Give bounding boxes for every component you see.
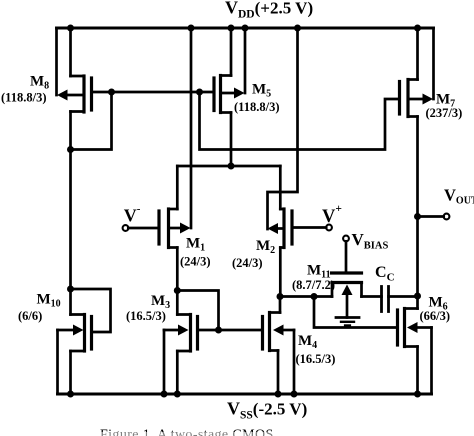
svg-text:VSS(-2.5 V): VSS(-2.5 V) bbox=[227, 399, 307, 422]
node M5 source on VDD bbox=[228, 25, 235, 32]
wire M2 drain down bbox=[279, 248, 282, 297]
wire M4 drain up bbox=[279, 297, 282, 313]
svg-text:(66/3): (66/3) bbox=[420, 309, 451, 323]
transistor M8 bbox=[57, 76, 92, 112]
svg-text:(8.7/7.2): (8.7/7.2) bbox=[292, 278, 335, 292]
wire M5 source to VDD bbox=[230, 28, 233, 76]
transistor M5 bbox=[214, 76, 245, 113]
terminal V- circle bbox=[123, 225, 129, 231]
wire M3 source to VSS bbox=[176, 351, 179, 394]
svg-text:M2: M2 bbox=[256, 238, 275, 256]
wire M8/M5 gate bias line bbox=[92, 91, 215, 94]
node M5 gate junction bbox=[196, 89, 203, 96]
wire VDD to M1 bulk bbox=[190, 28, 193, 228]
wire M3 drain bbox=[176, 291, 179, 315]
terminal V+ circle bbox=[326, 225, 332, 231]
transistor M1 bbox=[159, 209, 191, 248]
wire M10 diode connection bbox=[71, 289, 111, 332]
node M5 bulk on VDD bbox=[242, 25, 249, 32]
svg-text:M10: M10 bbox=[37, 292, 61, 310]
svg-text:VBIAS: VBIAS bbox=[352, 230, 389, 252]
transistor M3 bbox=[164, 315, 198, 352]
transistor M10 bbox=[58, 315, 92, 352]
node M3/M4 gate junction bbox=[215, 327, 222, 334]
wire M4 source to VSS bbox=[277, 351, 280, 395]
transistor M7 bbox=[400, 80, 434, 117]
ground symbol bbox=[336, 318, 359, 326]
svg-text:(237/3): (237/3) bbox=[426, 106, 463, 120]
node M10 source on VSS bbox=[67, 391, 74, 398]
wire first stage output line bbox=[280, 295, 332, 298]
wire VDD to M8 source bbox=[69, 28, 72, 76]
wire VDD right end to M7 bulk bbox=[432, 28, 435, 99]
wire VDD to M2 bulk bbox=[268, 28, 298, 229]
wire M8 drain down bbox=[69, 112, 72, 150]
wire M5 bulk to VDD bbox=[244, 28, 247, 93]
VSS power rail bbox=[58, 393, 432, 396]
node first stage output bbox=[277, 293, 284, 300]
node M3 drain bbox=[174, 287, 181, 294]
node M1 bulk on VDD bbox=[188, 25, 195, 32]
node VOUT tap bbox=[414, 213, 421, 220]
transistor M6 bbox=[398, 309, 432, 347]
node M4 source on VSS bbox=[275, 391, 282, 398]
transistor M2 bbox=[268, 209, 293, 248]
wire M2 source up to tail bbox=[279, 166, 282, 209]
VDD power rail bbox=[57, 27, 434, 30]
terminal VOUT circle bbox=[444, 214, 450, 220]
wire tail line bbox=[177, 165, 280, 168]
wire V- input lead bbox=[128, 227, 159, 230]
wire VOUT lead bbox=[418, 215, 444, 218]
node M8 drain bbox=[67, 146, 74, 153]
wire M3/M4 gate line bbox=[198, 329, 263, 332]
wire M3 diode connection bbox=[177, 291, 218, 331]
wire M4 bulk to VSS bbox=[293, 330, 296, 394]
transistor M11 MOS capacitor bbox=[332, 273, 362, 318]
node M6 gate tap bbox=[311, 293, 318, 300]
node Cc on output column bbox=[414, 293, 421, 300]
caption fade bbox=[90, 432, 310, 436]
svg-text:(118.8/3): (118.8/3) bbox=[234, 100, 279, 114]
svg-text:V-: V- bbox=[124, 203, 141, 226]
svg-text:V+: V+ bbox=[322, 203, 342, 227]
wire VBIAS lead bbox=[345, 241, 348, 273]
svg-text:M5: M5 bbox=[252, 82, 271, 100]
node M10 drain bbox=[67, 286, 74, 293]
wire output column M7 drain to M6 drain bbox=[416, 117, 419, 309]
node M7 source on VDD bbox=[414, 25, 421, 32]
node M2 bulk on VDD bbox=[294, 25, 301, 32]
svg-text:M1: M1 bbox=[186, 236, 205, 254]
node VDD/M8 source bbox=[67, 25, 74, 32]
svg-text:VOUT: VOUT bbox=[444, 186, 474, 207]
wire bias column M8 to M10 bbox=[69, 150, 72, 290]
svg-text:(24/3): (24/3) bbox=[232, 256, 263, 270]
node M8 gate junction bbox=[108, 89, 115, 96]
node tail junction bbox=[228, 163, 235, 170]
wire M1 source up to tail bbox=[176, 166, 179, 209]
terminal VBIAS circle bbox=[343, 236, 349, 242]
svg-text:VDD(+2.5 V): VDD(+2.5 V) bbox=[225, 0, 313, 21]
wire M8 diode connection bbox=[71, 92, 112, 150]
wire M5 drain to tail bbox=[230, 113, 233, 167]
node M6 source on VSS bbox=[414, 391, 421, 398]
wire M6 gate line bbox=[314, 297, 398, 328]
node M4 bulk on VSS bbox=[291, 391, 298, 398]
wire bias to M7 gate bbox=[200, 92, 400, 150]
node M3 bulk on VSS bbox=[161, 391, 168, 398]
wire Cc to output bbox=[389, 295, 418, 298]
wire M6 source to VSS bbox=[416, 347, 419, 395]
wire M10 bulk to VSS bbox=[56, 330, 59, 394]
wire M10 source to VSS bbox=[69, 351, 72, 394]
svg-text:(16.5/3): (16.5/3) bbox=[296, 352, 336, 366]
svg-text:(6/6): (6/6) bbox=[18, 309, 42, 323]
wire VDD left end to M8 bulk bbox=[55, 28, 58, 95]
wire M10 drain bbox=[69, 289, 72, 315]
capacitor Cc bbox=[382, 287, 389, 312]
wire M7 source to VDD bbox=[416, 28, 419, 80]
transistor M4 bbox=[263, 313, 295, 351]
svg-text:CC: CC bbox=[375, 264, 395, 284]
svg-text:(16.5/3): (16.5/3) bbox=[126, 309, 166, 323]
wire V+ input lead bbox=[292, 226, 326, 229]
svg-text:M8: M8 bbox=[30, 74, 49, 92]
svg-text:(118.8/3): (118.8/3) bbox=[1, 91, 46, 105]
wire M11 right tie to Cc bbox=[362, 295, 382, 298]
wire M3 bulk to VSS bbox=[163, 330, 166, 394]
wire M6 bulk to VSS right end bbox=[430, 328, 433, 395]
node M3 source on VSS bbox=[174, 391, 181, 398]
wire M1 drain down bbox=[176, 248, 179, 291]
svg-text:(24/3): (24/3) bbox=[180, 255, 211, 269]
svg-text:M4: M4 bbox=[298, 333, 317, 351]
